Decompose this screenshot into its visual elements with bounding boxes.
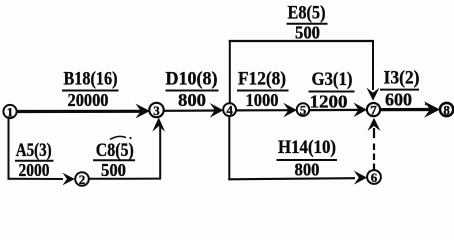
svg-text:2: 2 [79, 172, 86, 187]
svg-text:C8(5): C8(5) [96, 140, 134, 161]
label C8(5) / 500 [93, 140, 135, 180]
svg-text:6: 6 [371, 170, 378, 185]
stray dot speck [425, 103, 427, 105]
svg-text:600: 600 [385, 89, 412, 109]
node 8 [440, 102, 453, 117]
svg-text:7: 7 [370, 102, 377, 117]
svg-text:3: 3 [153, 103, 160, 118]
wire B18 from node 1 to node 3 [15, 104, 150, 119]
svg-text:H14(10): H14(10) [278, 137, 336, 158]
svg-text:800: 800 [178, 90, 206, 110]
label A5(3) / 2000 [15, 140, 54, 180]
svg-text:5: 5 [300, 102, 307, 117]
svg-text:E8(5): E8(5) [288, 2, 326, 23]
wire E8 top horizontal [229, 40, 374, 42]
stray hat mark above C8(5) [110, 136, 132, 139]
node 3 [149, 103, 163, 118]
svg-text:I3(2): I3(2) [384, 67, 420, 88]
svg-text:8: 8 [443, 102, 450, 117]
svg-text:20000: 20000 [68, 90, 109, 110]
svg-text:1200: 1200 [310, 91, 348, 111]
svg-text:4: 4 [226, 102, 233, 117]
svg-text:D10(8): D10(8) [166, 69, 218, 90]
wire riser from bottom line up into node 3 [152, 117, 165, 179]
wire C8 from node 2 to riser [89, 178, 161, 180]
node 4 [223, 102, 236, 117]
node 7 [367, 102, 380, 117]
label B18(16) / 20000 [62, 69, 119, 110]
label D10(8) / 800 [166, 69, 219, 110]
dashed wire from node 6 up into node 7 [368, 118, 381, 170]
wire D10 from node 3 to node 4 [164, 103, 224, 118]
svg-text:1: 1 [7, 104, 14, 119]
label E8(5) / 500 [287, 2, 328, 42]
svg-text:B18(16): B18(16) [64, 69, 118, 90]
wire E8 drop with arrow into node 7 [367, 40, 380, 101]
wire drop from node 4 down [228, 116, 230, 181]
svg-text:1000: 1000 [246, 90, 279, 110]
svg-text:800: 800 [295, 159, 320, 179]
label I3(2) / 600 [380, 67, 420, 109]
label F12(8) / 1000 [237, 69, 289, 110]
svg-text:G3(1): G3(1) [312, 69, 353, 90]
svg-text:A5(3): A5(3) [16, 140, 52, 161]
node 1 [3, 104, 16, 119]
wire G3 from node 5 to node 7 [309, 103, 367, 118]
node 5 [297, 102, 310, 117]
node 6 [367, 170, 381, 185]
svg-text:F12(8): F12(8) [238, 69, 286, 90]
label G3(1) / 1200 [309, 69, 355, 111]
wire F12 from node 4 to node 5 [236, 103, 297, 118]
wire H14 from node 4 drop to node 6 [228, 171, 367, 185]
label H14(10) / 800 [277, 137, 338, 179]
svg-text:500: 500 [295, 22, 320, 42]
wire I3 from node 7 to node 8 [380, 101, 440, 118]
wire E8 riser from node 4 up [229, 40, 231, 104]
svg-text:2000: 2000 [19, 160, 50, 180]
svg-text:500: 500 [101, 160, 126, 180]
wire A5 from node 1 to node 2 [8, 173, 75, 186]
node 2 [75, 172, 89, 187]
wire drop from node 1 down [8, 118, 10, 180]
